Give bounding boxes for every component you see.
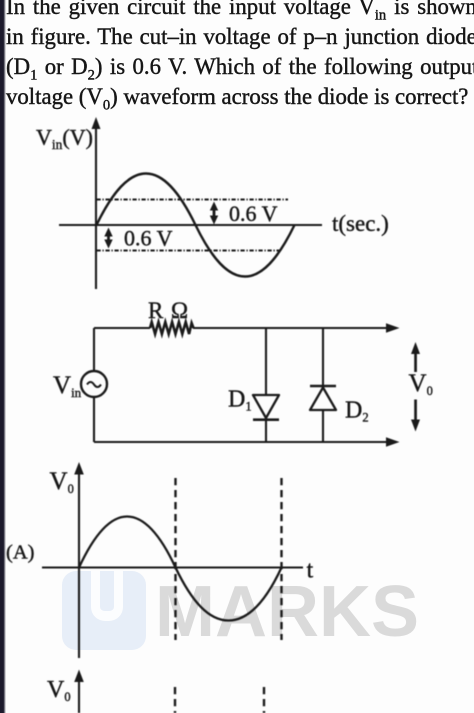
svg-text:D2: D2 <box>345 398 369 425</box>
svg-text:V0: V0 <box>50 468 74 496</box>
svg-text:t: t <box>307 558 314 584</box>
svg-text:t(sec.): t(sec.) <box>332 211 389 236</box>
svg-text:R Ω: R Ω <box>148 298 188 323</box>
svg-text:D1: D1 <box>228 387 252 414</box>
svg-text:Vin: Vin <box>53 372 82 400</box>
svg-text:0.6 V: 0.6 V <box>124 226 173 251</box>
svg-text:(A): (A) <box>6 542 34 564</box>
svg-text:Vin(V): Vin(V) <box>36 125 93 153</box>
svg-text:V0: V0 <box>409 370 433 398</box>
svg-text:0.6 V: 0.6 V <box>229 201 278 226</box>
svg-text:V0: V0 <box>47 677 71 704</box>
